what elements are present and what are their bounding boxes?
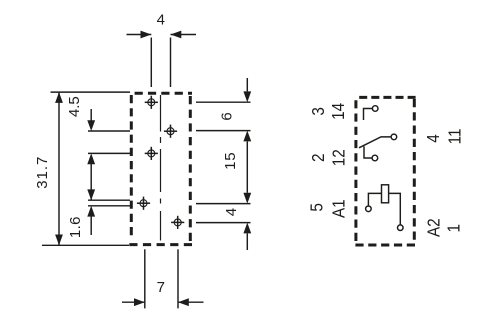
- dimension 1.6 left: [87, 189, 130, 235]
- contact terminal 14: [364, 106, 379, 120]
- svg-text:1: 1: [444, 224, 464, 233]
- svg-text:3: 3: [308, 107, 328, 116]
- dimension 7 bottom: [122, 249, 204, 308]
- dimension 4 right: [196, 204, 251, 250]
- coil terminal A1: [366, 193, 382, 211]
- coil terminal A2: [389, 193, 404, 230]
- svg-text:12: 12: [329, 149, 349, 166]
- svg-text:4: 4: [223, 208, 240, 216]
- svg-text:5: 5: [307, 203, 327, 212]
- dimension 15 right: [243, 131, 251, 204]
- svg-text:4: 4: [157, 11, 165, 28]
- hole H4: [137, 197, 150, 210]
- svg-text:1.6: 1.6: [67, 216, 84, 238]
- svg-text:15: 15: [222, 152, 239, 170]
- dimension 31.7 left: [42, 92, 130, 245]
- svg-text:A2: A2: [424, 218, 444, 237]
- svg-text:2: 2: [308, 154, 328, 163]
- dimension 4.5 left: [87, 109, 130, 200]
- svg-text:31.7: 31.7: [34, 156, 51, 189]
- schematic outline dashed rectangle: [355, 97, 415, 245]
- dimension 4 top: [127, 31, 197, 87]
- svg-text:11: 11: [445, 128, 465, 144]
- contact terminal 12: [364, 146, 378, 161]
- hole H1: [145, 96, 158, 109]
- svg-text:4.5: 4.5: [66, 96, 83, 117]
- svg-text:14: 14: [328, 103, 348, 120]
- hole H3: [145, 147, 158, 160]
- svg-text:A1: A1: [328, 199, 348, 218]
- footprint outline dashed rectangle: [129, 93, 192, 244]
- centerline: [160, 95, 162, 241]
- hole H2: [164, 125, 177, 138]
- svg-text:6: 6: [218, 112, 235, 120]
- coil U1: [382, 185, 389, 203]
- svg-text:7: 7: [157, 279, 165, 296]
- hole H5: [171, 216, 184, 229]
- dimension 6 right: [196, 78, 251, 131]
- svg-text:4: 4: [423, 134, 443, 143]
- contact terminal 11 with movable arm: [359, 134, 397, 148]
